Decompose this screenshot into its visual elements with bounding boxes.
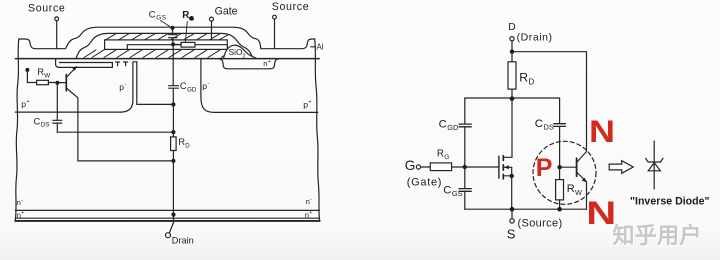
node G (Gate) terminal <box>405 158 442 188</box>
svg-text:N: N <box>589 113 615 149</box>
resistor RG (cross-section) <box>175 42 195 47</box>
svg-text:G: G <box>444 154 449 161</box>
label n+ bottom right <box>305 210 313 220</box>
resistor RD (circuit) <box>508 62 516 158</box>
label n+ bottom left <box>17 210 25 220</box>
label RW (circuit) <box>567 183 582 197</box>
label SiO2 <box>229 47 246 59</box>
svg-text:Gate: Gate <box>215 6 238 18</box>
capacitor CGS (circuit) <box>459 167 471 209</box>
label CDS (circuit) <box>535 118 554 132</box>
svg-text:+: + <box>268 59 271 65</box>
svg-text:+: + <box>21 210 24 216</box>
svg-text:GD: GD <box>187 87 197 94</box>
svg-text:Al: Al <box>317 42 324 51</box>
capacitor CGD (cross-section) <box>169 46 179 102</box>
svg-text:DS: DS <box>544 122 554 131</box>
svg-text:+: + <box>308 100 311 106</box>
wire inner oxide dome contour <box>76 33 253 58</box>
svg-text:Source: Source <box>272 1 309 13</box>
arrow implication <box>609 161 633 174</box>
wire right source terminal to metal <box>274 19 276 49</box>
gate poly white box <box>105 40 228 50</box>
svg-text:(Drain): (Drain) <box>517 31 553 43</box>
svg-text:(Gate): (Gate) <box>407 177 442 189</box>
label n- bottom right <box>306 197 313 207</box>
silicon surface line <box>15 58 319 60</box>
capacitor CGD (circuit) <box>459 98 471 167</box>
label RG bold with dot and pointer <box>182 10 194 42</box>
svg-text:-: - <box>208 81 210 87</box>
node top junction <box>510 50 514 54</box>
label RW <box>37 67 50 79</box>
wire RD to drain layer <box>172 161 174 215</box>
svg-text:C: C <box>180 81 187 91</box>
svg-text:GD: GD <box>447 123 458 132</box>
svg-text:GS: GS <box>156 15 166 22</box>
n+ bottom line <box>15 217 319 219</box>
right wavy torn edge <box>315 39 320 221</box>
svg-text:(Source): (Source) <box>518 217 563 229</box>
svg-text:D: D <box>508 22 515 33</box>
label RD <box>178 137 190 149</box>
wire collector to RD bottom <box>78 160 173 162</box>
node source junction on rail <box>510 207 515 212</box>
svg-text:C: C <box>439 119 447 131</box>
label CGS <box>149 8 167 21</box>
svg-text:-: - <box>310 197 312 203</box>
node Gate (terminal) <box>210 6 238 22</box>
wire gate terminal down and left to RG <box>195 21 212 43</box>
capacitor CGS (cross-section) <box>169 26 178 47</box>
label CGS pointer <box>161 21 172 28</box>
gate poly hatched band (upper) <box>106 34 229 40</box>
wire top node to right branch <box>512 52 587 152</box>
capacitor CDS (cross-section) <box>53 84 62 132</box>
wire CDS bottom link <box>57 131 173 133</box>
node base junction <box>557 165 561 169</box>
svg-text:S: S <box>507 227 516 242</box>
svg-text:2: 2 <box>243 53 246 59</box>
svg-text:D: D <box>529 78 535 87</box>
op-amp MOSFET symbol U1 <box>499 156 514 179</box>
left wavy torn edge <box>15 39 18 221</box>
node RW junction on rail <box>557 207 562 212</box>
node JFET junction dot <box>171 102 175 106</box>
wire left source terminal to metal <box>56 21 58 49</box>
left n+ source region outline <box>56 59 113 68</box>
label CGS (circuit) <box>443 184 462 198</box>
label CGD (circuit) <box>439 119 459 133</box>
wire emitter down <box>586 182 588 209</box>
wire bottom rail <box>465 208 587 210</box>
wire collector vertical <box>77 98 79 161</box>
node drain junction dot <box>171 213 175 217</box>
right n+ source region outline <box>219 59 278 69</box>
svg-text:C: C <box>535 118 543 130</box>
svg-text:C: C <box>443 184 451 196</box>
right p-well boundary <box>201 59 318 113</box>
channel T marks <box>116 62 128 66</box>
node Source (left terminal) <box>28 3 65 21</box>
svg-text:知乎用户: 知乎用户 <box>613 223 702 248</box>
svg-text:+: + <box>309 210 312 216</box>
svg-text:-: - <box>21 197 23 203</box>
resistor RD (cross-section) <box>171 105 177 163</box>
svg-text:GS: GS <box>452 189 463 198</box>
wire capacitor rail <box>465 97 560 99</box>
n- / n+ interface line <box>15 209 319 211</box>
wire aluminium source metal top contour with dome over gate <box>19 27 315 49</box>
svg-text:+: + <box>26 99 29 105</box>
node Source (right terminal) <box>272 1 309 19</box>
node S (Source) terminal <box>507 209 563 241</box>
svg-text:C: C <box>34 116 41 126</box>
label RG (circuit) <box>437 148 449 160</box>
svg-text:W: W <box>575 188 582 197</box>
wire gate node to MOSFET <box>465 166 499 168</box>
svg-text:Drain: Drain <box>172 235 194 245</box>
gate oxide hatched band (lower) <box>84 49 238 57</box>
label RD (circuit) <box>519 71 534 87</box>
gate poly inner step <box>127 45 227 50</box>
svg-text:DS: DS <box>41 122 50 129</box>
node Drain terminal <box>166 216 194 245</box>
label n- bottom left <box>17 197 24 207</box>
label n+ (right cell) <box>263 59 271 68</box>
label CGD <box>180 81 197 93</box>
svg-text:D: D <box>185 142 190 149</box>
svg-text:G: G <box>405 158 416 173</box>
label p- left cell <box>119 82 126 92</box>
node D (Drain) terminal <box>508 22 552 44</box>
label p- right cell <box>202 81 209 91</box>
transistor parasitic NPN (cross-section) <box>55 66 78 98</box>
node gate junction <box>463 165 467 169</box>
label p+ far right <box>303 100 311 110</box>
wire drain to top node <box>511 41 513 62</box>
wire MOSFET source down <box>511 176 513 209</box>
svg-text:R: R <box>567 183 575 195</box>
JFET region boundary <box>137 62 174 105</box>
capacitor CDS (circuit) <box>554 98 566 167</box>
left n+ inner boundary <box>60 62 113 64</box>
svg-text:R: R <box>519 71 528 85</box>
svg-text:Source: Source <box>28 3 65 15</box>
resistor RW (cross-section) <box>25 68 57 85</box>
resistor RG (circuit) <box>421 163 465 171</box>
svg-text:P: P <box>536 154 553 182</box>
SiO2 bump outline <box>224 45 256 58</box>
left p-well right boundary <box>121 62 137 112</box>
left p-well bottom <box>15 111 120 113</box>
transistor parasitic NPN Q1 (circuit) <box>560 152 587 183</box>
node middle junction <box>510 96 515 101</box>
svg-text:R: R <box>437 148 444 159</box>
resistor RW (circuit) <box>556 169 564 209</box>
svg-text:SiO: SiO <box>229 47 243 57</box>
label CDS <box>34 116 50 128</box>
dashed circle around NPN <box>533 141 596 204</box>
svg-text:R: R <box>182 10 189 21</box>
svg-text:C: C <box>149 8 156 19</box>
bottom edge thick line <box>15 220 320 222</box>
diode D1 inverse diode <box>646 141 663 189</box>
label Al with tick <box>311 42 324 51</box>
svg-text:"Inverse Diode": "Inverse Diode" <box>630 195 710 207</box>
svg-text:W: W <box>44 72 50 79</box>
label p+ far left <box>21 99 29 109</box>
svg-text:-: - <box>125 82 127 88</box>
